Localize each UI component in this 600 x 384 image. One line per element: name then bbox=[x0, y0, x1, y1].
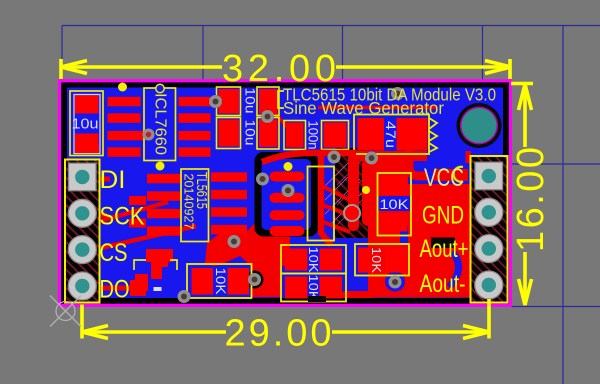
svg-text:GND: GND bbox=[422, 202, 464, 230]
svg-text:20140927: 20140927 bbox=[182, 174, 196, 230]
svg-text:Aout-: Aout- bbox=[420, 270, 466, 298]
svg-text:32.00: 32.00 bbox=[222, 48, 336, 90]
svg-text:29.00: 29.00 bbox=[225, 313, 332, 355]
svg-text:10K: 10K bbox=[213, 268, 228, 295]
svg-text:10u: 10u bbox=[243, 88, 259, 114]
svg-text:Aout+: Aout+ bbox=[420, 235, 469, 263]
svg-text:10K: 10K bbox=[369, 247, 384, 273]
svg-text:10K: 10K bbox=[380, 196, 410, 212]
svg-text:CS: CS bbox=[100, 239, 128, 267]
svg-text:VCC: VCC bbox=[424, 164, 464, 192]
svg-text:ICL7660: ICL7660 bbox=[152, 93, 169, 155]
svg-text:Sine Wave Generator: Sine Wave Generator bbox=[283, 98, 444, 118]
svg-text:SCK: SCK bbox=[100, 203, 145, 231]
svg-text:10u: 10u bbox=[243, 120, 259, 146]
svg-text:16.00: 16.00 bbox=[510, 147, 552, 252]
svg-text:100n: 100n bbox=[306, 121, 321, 150]
svg-text:DI: DI bbox=[100, 166, 126, 194]
svg-text:10u: 10u bbox=[72, 117, 99, 133]
svg-text:47u: 47u bbox=[383, 121, 398, 148]
svg-text:10K: 10K bbox=[306, 247, 321, 273]
svg-text:DO: DO bbox=[100, 276, 130, 304]
